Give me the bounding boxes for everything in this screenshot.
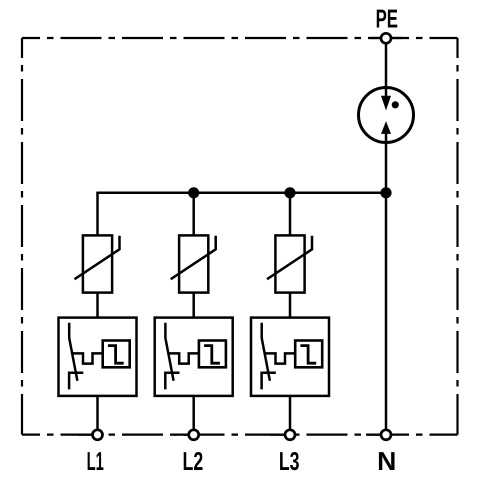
junction N/bus xyxy=(380,187,391,198)
wire varistor L2 to disconnect L2 xyxy=(192,292,195,319)
varistor L1 xyxy=(75,235,120,292)
disconnect device L1 (thermal disconnector with status indicator) xyxy=(59,318,137,396)
disconnect device L3 (thermal disconnector with status indicator) xyxy=(251,318,329,396)
svg-text:L2: L2 xyxy=(183,446,204,476)
terminal L1 xyxy=(93,430,103,440)
wire bus to varistor L1 xyxy=(96,192,99,237)
junction L3/bus xyxy=(284,187,295,198)
wire segment on boundary at N terminal xyxy=(366,434,392,436)
svg-text:N: N xyxy=(377,446,396,476)
terminal N xyxy=(381,430,391,440)
wire PE terminal to spark gap xyxy=(385,41,388,90)
varistor L3 xyxy=(267,235,312,292)
wire varistor L3 to disconnect L3 xyxy=(289,292,292,319)
wire varistor L1 to disconnect L1 xyxy=(96,292,99,319)
wire segment on boundary at L2 terminal xyxy=(174,434,200,436)
svg-text:L3: L3 xyxy=(279,446,300,476)
junction L2/bus xyxy=(188,187,199,198)
wire segment on boundary at L3 terminal xyxy=(270,434,296,436)
wire spark gap to N terminal xyxy=(385,142,388,431)
wire bus to varistor L2 xyxy=(192,192,195,237)
spark gap (N-PE arrester) xyxy=(359,88,414,144)
enclosure boundary (dash-dot) xyxy=(22,38,458,435)
varistor L2 xyxy=(171,235,216,292)
wire disconnect L3 to terminal L3 xyxy=(289,396,292,431)
wire bus to varistor L3 xyxy=(289,192,292,237)
terminal PE xyxy=(381,33,391,43)
wire segment on boundary at L1 terminal xyxy=(78,434,104,436)
disconnect device L2 (thermal disconnector with status indicator) xyxy=(155,318,233,396)
terminal L3 xyxy=(285,430,295,440)
terminal L2 xyxy=(189,430,199,440)
wire segment on boundary at PE terminal xyxy=(370,37,402,39)
wire disconnect L2 to terminal L2 xyxy=(192,396,195,431)
bus wire (cross-connection L1-L2-L3-N) xyxy=(98,192,387,195)
svg-text:PE: PE xyxy=(376,4,398,34)
wire disconnect L1 to terminal L1 xyxy=(96,396,99,431)
svg-text:L1: L1 xyxy=(87,446,104,476)
